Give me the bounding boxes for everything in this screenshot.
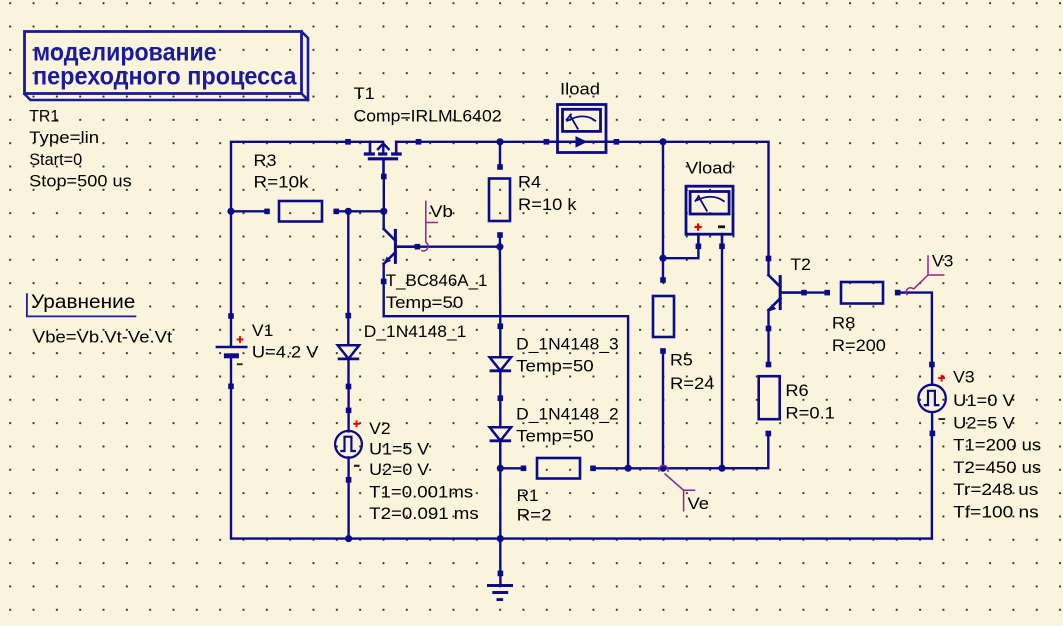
- svg-text:Iload: Iload: [560, 79, 600, 98]
- resistor R6: [759, 362, 780, 437]
- resistor R4: [489, 164, 510, 238]
- svg-text:T1: T1: [354, 84, 375, 103]
- svg-text:переходного процесса: переходного процесса: [33, 62, 298, 90]
- wire Vload minus: [721, 246, 723, 468]
- svg-text:Type=lin: Type=lin: [29, 128, 99, 147]
- wire base node to diode chain: [499, 247, 502, 326]
- ammeter Iload: [544, 105, 620, 153]
- junction node R1 right: [625, 465, 632, 472]
- svg-text:U=4.2 V: U=4.2 V: [252, 343, 319, 362]
- resistor R3: [264, 201, 339, 222]
- diode D_1N4148_3: [490, 324, 512, 402]
- svg-text:R=2: R=2: [517, 505, 552, 524]
- svg-text:U1=5 V: U1=5 V: [369, 440, 430, 459]
- svg-text:R=24: R=24: [670, 374, 715, 393]
- wire base BJT to R4: [417, 245, 500, 247]
- wire emitter horizontal: [384, 316, 628, 468]
- svg-text:T1=0.001ms: T1=0.001ms: [369, 482, 473, 501]
- wire R5 bottom: [662, 351, 664, 468]
- junction node R3 left: [227, 208, 234, 215]
- svg-text:Temp=50: Temp=50: [516, 426, 594, 445]
- battery V1: [216, 313, 248, 389]
- ground: [487, 571, 513, 600]
- transistor T2: [766, 256, 807, 332]
- wire label Vb: [421, 201, 438, 251]
- svg-text:D_1N4148_3: D_1N4148_3: [516, 335, 619, 354]
- junction node R3 right D1: [345, 208, 352, 215]
- voltmeter Vload: [686, 186, 733, 249]
- wire T1 gate down: [383, 177, 385, 212]
- wire T2 base to R8: [804, 291, 827, 293]
- svg-text:TR1: TR1: [29, 107, 59, 126]
- wire label Ve: [659, 465, 695, 511]
- wire R1 left: [500, 467, 523, 469]
- svg-text:Ve: Ve: [688, 494, 710, 513]
- wire left branch V1: [230, 211, 232, 316]
- svg-text:R5: R5: [670, 351, 693, 370]
- wire R8 right to V3: [898, 293, 932, 365]
- svg-text:V3: V3: [932, 251, 954, 270]
- wire R4 top: [499, 142, 501, 167]
- resistor R8: [824, 282, 900, 304]
- svg-text:T1=200 us: T1=200 us: [953, 436, 1041, 455]
- svg-text:R=10k: R=10k: [254, 172, 310, 191]
- svg-text:Start=0: Start=0: [29, 150, 82, 169]
- junction node Vload plus: [659, 255, 666, 262]
- junction node Ve: [659, 465, 666, 472]
- wire top rail right: [663, 142, 769, 259]
- wire label V3: [906, 255, 944, 295]
- svg-text:Tr=248 us: Tr=248 us: [953, 480, 1038, 499]
- svg-text:T2=450 us: T2=450 us: [953, 458, 1041, 477]
- svg-text:U1=0 V: U1=0 V: [953, 391, 1015, 410]
- wire R4 bottom to base node: [499, 235, 501, 247]
- wire V3 bottom: [931, 433, 933, 538]
- svg-text:Comp=IRLML6402: Comp=IRLML6402: [354, 106, 502, 125]
- wire R5 branch: [662, 142, 664, 280]
- svg-text:V3: V3: [953, 368, 975, 387]
- wire D1 to V2: [347, 387, 349, 411]
- title box frame: [25, 32, 309, 101]
- junction node base: [496, 243, 503, 250]
- transistor T_BC846A_1: [381, 209, 420, 285]
- svg-text:R4: R4: [518, 173, 541, 192]
- wire R3 left: [231, 210, 267, 212]
- diode D_1N4148_1: [338, 313, 360, 390]
- wire top rail middle: [419, 141, 664, 143]
- svg-text:Stop=500 us: Stop=500 us: [29, 172, 132, 191]
- junction node R1 left: [497, 465, 504, 472]
- junction node V2 rail: [345, 535, 352, 542]
- svg-text:Vb: Vb: [430, 202, 453, 221]
- wire R3 right: [335, 210, 384, 212]
- junction node Vload minus bottom: [718, 465, 725, 472]
- wire D2 bottom to R1 node: [499, 440, 501, 469]
- resistor R5: [653, 277, 674, 354]
- wire V1 bottom to ground rail: [231, 386, 932, 538]
- svg-text:Tf=100 ns: Tf=100 ns: [953, 503, 1038, 522]
- svg-text:D_1N4148_1: D_1N4148_1: [364, 322, 467, 341]
- svg-text:Temp=50: Temp=50: [386, 293, 464, 312]
- svg-text:R=0.1: R=0.1: [785, 403, 835, 422]
- svg-text:U2=5 V: U2=5 V: [953, 413, 1015, 432]
- svg-text:U2=0 V: U2=0 V: [369, 460, 430, 479]
- svg-text:Vload: Vload: [686, 158, 733, 177]
- wire T2 emitter to R6: [767, 329, 769, 365]
- svg-text:R6: R6: [785, 381, 808, 400]
- svg-text:R=10 k: R=10 k: [518, 195, 577, 214]
- svg-text:Vbe=Vb.Vt-Ve.Vt: Vbe=Vb.Vt-Ve.Vt: [33, 327, 172, 346]
- svg-text:Уравнение: Уравнение: [31, 292, 135, 313]
- svg-text:T2: T2: [790, 255, 811, 274]
- transient simulation TR1 text: [29, 107, 132, 191]
- svg-text:V2: V2: [369, 419, 391, 438]
- svg-text:T_BC846A_1: T_BC846A_1: [386, 271, 488, 290]
- svg-text:D_1N4148_2: D_1N4148_2: [516, 405, 619, 424]
- svg-text:T2=0.091 ms: T2=0.091 ms: [369, 504, 479, 523]
- junction node ground rail: [497, 535, 504, 542]
- transistor T1 IRLML6402: [345, 139, 421, 179]
- wire R1 node down to rail: [499, 468, 501, 538]
- resistor R1: [521, 458, 596, 479]
- junction node R4 top: [496, 138, 503, 145]
- svg-text:Temp=50: Temp=50: [516, 356, 594, 375]
- wire top rail left: [231, 142, 348, 212]
- wire D1 branch top: [347, 211, 349, 315]
- svg-text:R=200: R=200: [832, 336, 886, 355]
- wire rail to ground: [499, 539, 501, 574]
- svg-text:V1: V1: [252, 321, 274, 340]
- equation frame: [27, 293, 136, 316]
- pulse source V3: [918, 362, 945, 437]
- svg-text:R8: R8: [832, 314, 856, 333]
- junction node gate: [380, 208, 387, 215]
- wire V2 bottom: [347, 480, 349, 539]
- svg-text:R1: R1: [517, 486, 539, 505]
- diode D_1N4148_2: [490, 398, 512, 468]
- wire Vload plus: [663, 246, 698, 258]
- junction node R5 top: [659, 138, 666, 145]
- wire R1 right to Ve rail: [593, 434, 768, 469]
- wire emitter down: [383, 281, 385, 316]
- svg-text:R3: R3: [254, 151, 277, 170]
- pulse source V2: [335, 408, 362, 483]
